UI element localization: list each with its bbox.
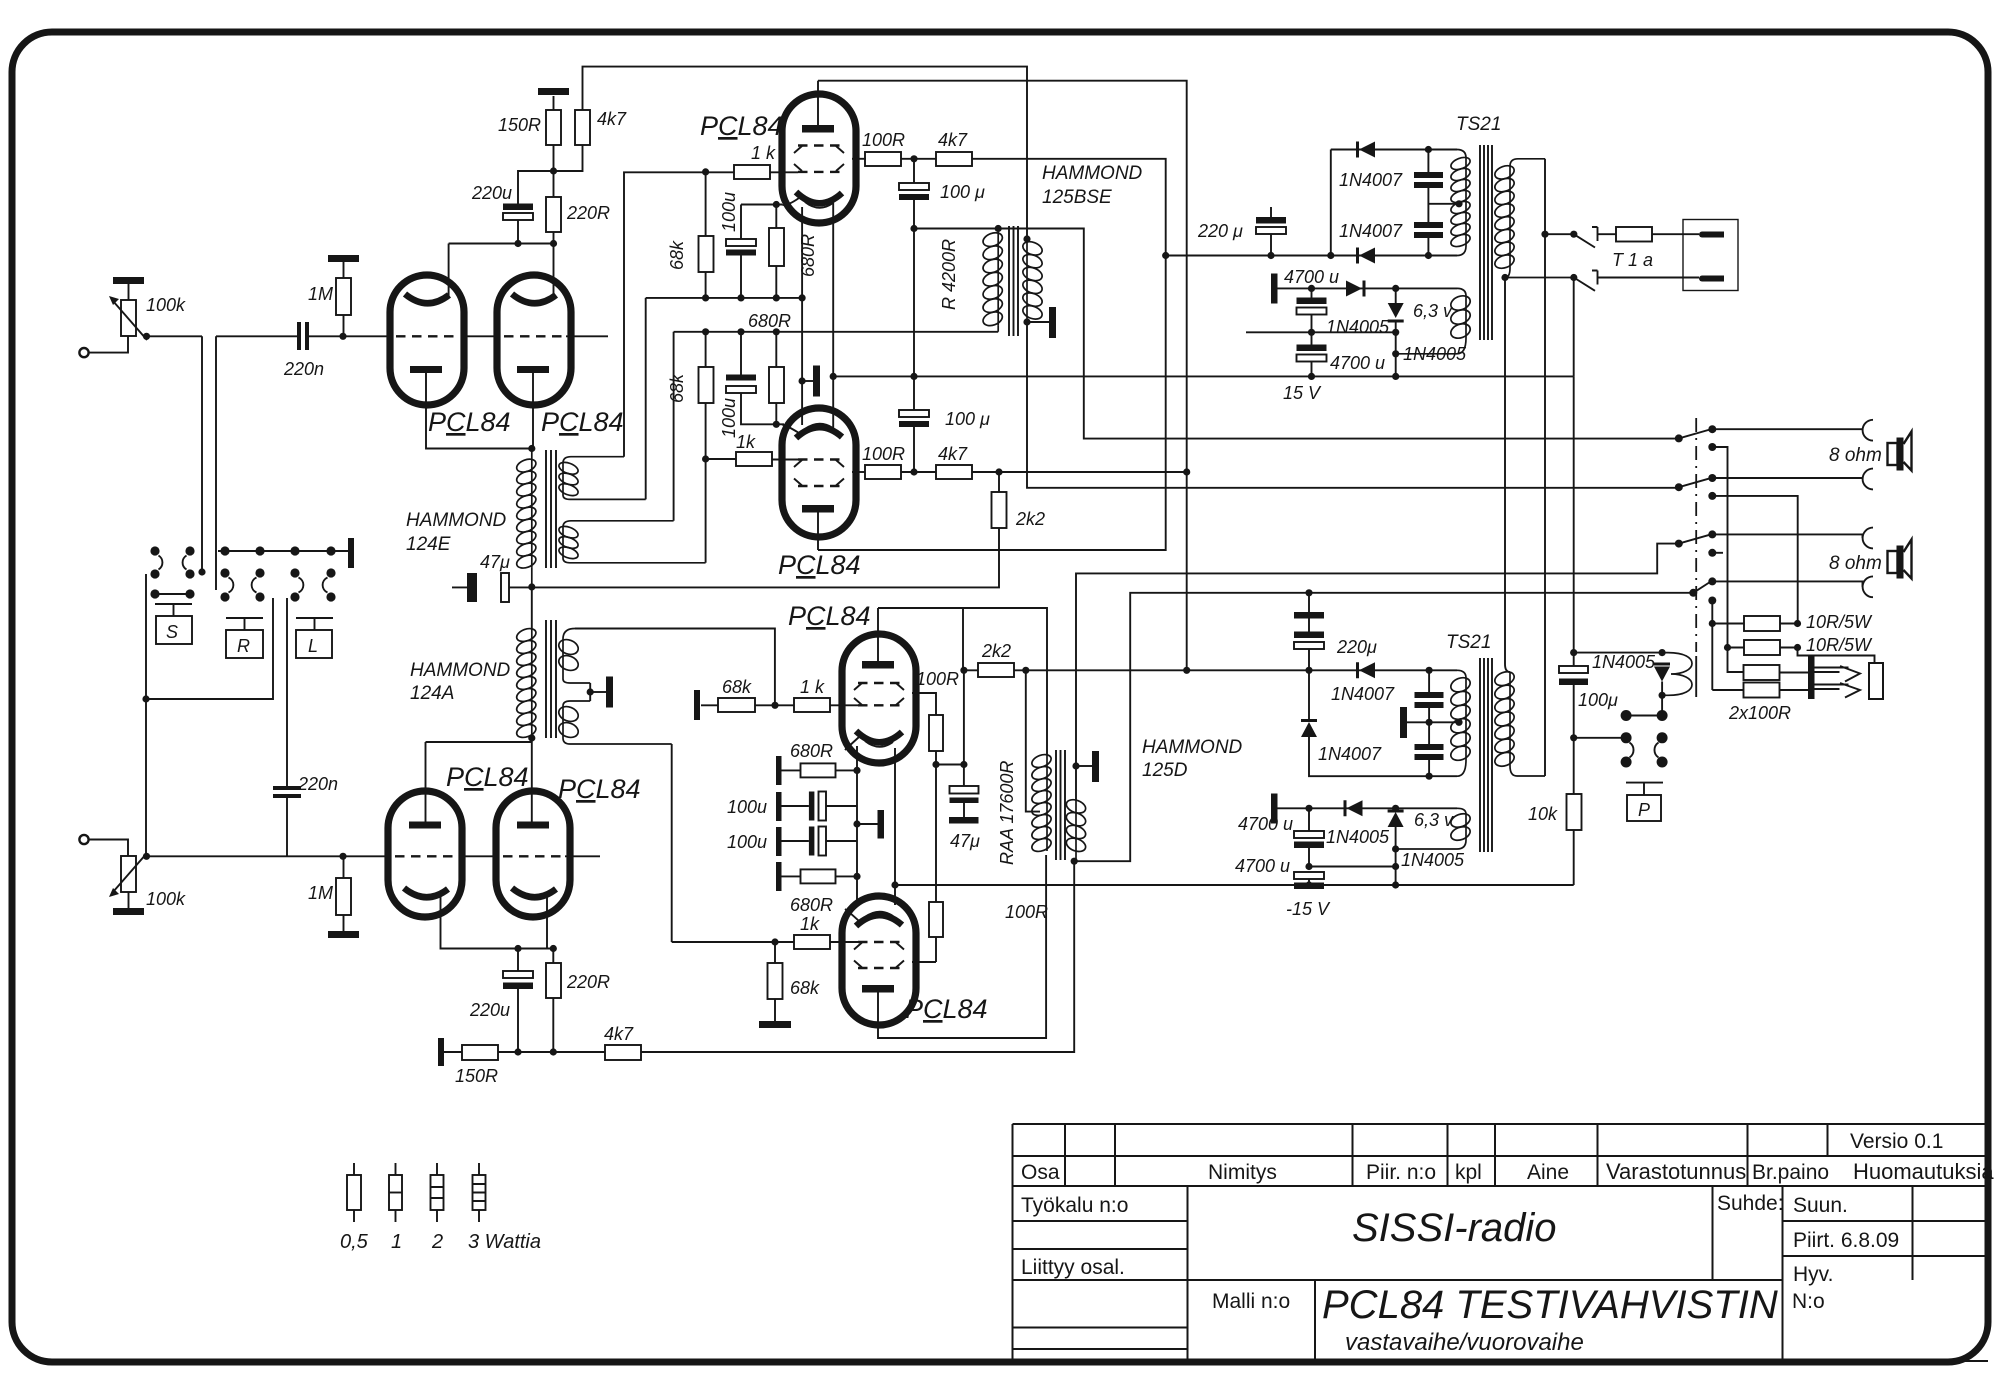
hammond 124E secondary winding A	[557, 457, 645, 500]
svg-text:Varastotunnus: Varastotunnus	[1606, 1159, 1746, 1184]
V1 anode arc	[405, 294, 449, 303]
capacitor C11 220u	[1256, 217, 1286, 224]
wire C19 leads	[1308, 808, 1310, 866]
wire 125D sec top lead up	[1076, 544, 1679, 800]
V4b screen lead right	[912, 937, 936, 962]
svg-text:100u: 100u	[719, 192, 739, 232]
node C20 bottom	[1305, 881, 1312, 888]
V4b cathode inner arc	[865, 912, 893, 917]
capacitor C9 100u lower	[899, 410, 929, 417]
node bus1 68k	[702, 294, 709, 301]
node relay coil bottom	[1659, 692, 1666, 699]
wire D8 down	[1395, 827, 1397, 885]
node +15 rail right	[1392, 329, 1399, 336]
relay contact right	[1657, 732, 1668, 743]
node 1M R7 top	[339, 853, 346, 860]
PS top rail	[1331, 149, 1457, 151]
capacitor C7 100u lower	[726, 375, 756, 381]
svg-text:1M: 1M	[308, 883, 333, 903]
node 220u C2 bottom	[514, 240, 521, 247]
V2 cathode lead	[532, 373, 534, 449]
svg-text:2x100R: 2x100R	[1728, 703, 1791, 723]
svg-text:4k7: 4k7	[604, 1024, 634, 1044]
wire colA down to lower channel	[145, 574, 147, 856]
resistor R7 1M	[336, 878, 351, 915]
wire C17 leads	[1428, 670, 1430, 744]
svg-text:L: L	[308, 636, 318, 656]
speaker2 icon	[1888, 551, 1898, 573]
svg-text:1M: 1M	[308, 284, 333, 304]
node 124E primary top	[528, 445, 535, 452]
svg-text:4700 u: 4700 u	[1235, 856, 1290, 876]
svg-text:100μ: 100μ	[1578, 690, 1618, 710]
V3 cathode drop wires	[802, 200, 833, 376]
svg-text:HAMMOND: HAMMOND	[1042, 163, 1143, 184]
wire 680R R12 leads	[775, 205, 777, 298]
V2b cathode lead	[546, 896, 548, 949]
relay coil	[1662, 653, 1692, 696]
svg-text:PCL84: PCL84	[778, 550, 861, 580]
potentiometer R1 100k	[121, 300, 136, 336]
wire TS21#2 primary center tap	[1429, 721, 1461, 723]
capacitor C20 4700u	[1294, 872, 1324, 879]
wire 220u lower leads	[518, 949, 553, 1053]
ground on switch feed wire	[1308, 593, 1310, 612]
capacitor C3 220n lower	[273, 786, 301, 798]
wire 6.3v rail upper	[1278, 287, 1458, 289]
wire 125BSE right bottom to ground	[1023, 318, 1030, 325]
node 1M R2 top	[339, 333, 346, 340]
contact column 3	[290, 568, 299, 577]
wire 100u to relay contacts	[1570, 734, 1577, 741]
node 150R lower junction	[514, 1048, 521, 1055]
svg-text:2k2: 2k2	[1015, 509, 1045, 529]
wire 100u C6 leads	[740, 205, 742, 298]
wire 68k R11 leads	[705, 172, 707, 298]
wire 2k2 to B+ node	[964, 669, 1187, 671]
ground 124A center tap	[590, 691, 606, 693]
wire 4k7 lower to feedback	[553, 861, 1074, 1052]
legend resistor 0,5W	[353, 1163, 355, 1222]
wire 220R lower leads	[552, 949, 554, 1053]
box L with terminal	[296, 618, 333, 630]
V2 anode lead	[553, 244, 555, 297]
wire V4 cathode exit stub	[776, 423, 784, 425]
svg-text:1N4007: 1N4007	[1339, 221, 1403, 241]
svg-text:Malli n:o: Malli n:o	[1212, 1290, 1290, 1313]
V4 cathode arc	[796, 427, 842, 438]
TS21 lower core	[1480, 658, 1492, 852]
wire 150R leads	[553, 96, 555, 171]
svg-text:Huomautuksia: Huomautuksia	[1853, 1159, 1994, 1184]
box S with terminal	[155, 604, 192, 616]
wire 1k V4 to grid	[772, 459, 798, 461]
wire 124A secA top to V3b grid	[575, 629, 775, 709]
node chain minus rail	[910, 373, 917, 380]
wire 124E primary bottom down to 124A	[531, 587, 533, 629]
wire 100u C7 leads	[741, 332, 776, 425]
resistor R8 220R lower	[546, 963, 561, 998]
node 68k V4b	[771, 938, 778, 945]
wire 124E secA bottom to bus	[645, 298, 647, 500]
node bus2 68k	[702, 328, 709, 335]
node C18 bottom	[1426, 773, 1433, 780]
V3b cathode drop	[856, 746, 858, 876]
resistor R28 2k2	[978, 663, 1014, 677]
node 125D center tap riser	[1022, 667, 1029, 674]
node D4 minus rail	[1392, 373, 1399, 380]
svg-text:1: 1	[391, 1231, 402, 1253]
svg-text:100R: 100R	[862, 130, 905, 150]
node lower B+	[1183, 667, 1190, 674]
node C17 C18 chain top	[1426, 667, 1433, 674]
svg-text:1N4005: 1N4005	[1403, 344, 1467, 364]
resistor R22 2k2	[992, 492, 1007, 528]
wire D9 down	[1661, 682, 1663, 696]
lower B+ rail	[1187, 669, 1457, 671]
V4 grid row 1	[798, 458, 840, 460]
wire minus rail corner to relay line	[1573, 278, 1575, 377]
hammond 124E core	[546, 450, 556, 568]
node 100u C8 top	[910, 155, 917, 162]
svg-text:220n: 220n	[297, 774, 338, 794]
svg-text:100u: 100u	[727, 832, 767, 852]
svg-text:N:o: N:o	[1792, 1290, 1825, 1313]
svg-text:220 μ: 220 μ	[1197, 221, 1243, 241]
node D4 top	[1392, 285, 1399, 292]
svg-text:P: P	[1638, 800, 1650, 820]
wire 1M lower leads	[343, 856, 345, 931]
headphone jack	[1808, 656, 1883, 699]
node switch pole1	[1541, 231, 1548, 238]
lower cathode network row2 100u	[776, 792, 782, 821]
node 100R V3b bottom	[932, 761, 939, 768]
box P with terminal	[1626, 783, 1663, 795]
resistor R11 68k	[699, 236, 714, 272]
contact column 4	[326, 568, 335, 577]
node 124A center tap	[587, 688, 594, 695]
svg-text:R: R	[237, 636, 250, 656]
V4 cathode top leads	[802, 298, 833, 430]
node bus2 680R	[773, 328, 780, 335]
node R31 left	[1724, 644, 1731, 651]
wire 100R jack leads	[1780, 673, 1809, 691]
svg-text:100R: 100R	[862, 444, 905, 464]
svg-text:220n: 220n	[283, 359, 324, 379]
mains switch pole1	[1545, 227, 1598, 248]
triode V1b envelope	[388, 791, 462, 917]
capacitor C18	[1415, 744, 1444, 760]
V1 cathode lead	[426, 373, 532, 449]
node bus1 cathode	[799, 294, 806, 301]
wire V3 anode top rail	[818, 81, 1187, 671]
wire 220u C11 leads	[1270, 207, 1272, 256]
wire 68k R13 leads	[705, 332, 707, 459]
svg-text:680R: 680R	[798, 234, 818, 277]
wire C12 leads	[1427, 150, 1429, 223]
svg-text:4k7: 4k7	[597, 109, 627, 129]
node 1k V3b	[771, 702, 778, 709]
node 125BSE left coil top	[995, 225, 1002, 232]
wire R31 leads	[1728, 647, 1798, 649]
wire 220R leads	[553, 171, 555, 244]
svg-text:8 ohm: 8 ohm	[1829, 445, 1882, 466]
svg-text:220R: 220R	[566, 972, 610, 992]
node D8 top	[1392, 805, 1399, 812]
wire pot R1 to switch columns	[147, 336, 203, 572]
switch bus wire	[218, 550, 349, 552]
resistor R13 68k lower	[699, 367, 714, 403]
speaker switch pair3	[1675, 540, 1683, 548]
resistor R12 680R	[769, 228, 784, 266]
wire 124E secA top to V3 grid row	[624, 172, 734, 456]
V3b V4b second cathode lead	[894, 748, 896, 905]
node pot R1 out	[143, 333, 150, 340]
resistor R32 100R jack	[1744, 665, 1780, 680]
TS21 upper 6.3v winding	[1396, 288, 1472, 353]
svg-text:1k: 1k	[736, 432, 756, 452]
wire 68k V4b leads	[774, 942, 776, 1021]
node 220R R4 bottom	[550, 240, 557, 247]
node C15 bottom	[1308, 373, 1315, 380]
resistor R31 10R5W	[1744, 640, 1780, 655]
ground above 150R	[538, 88, 569, 95]
relay contact left	[1621, 732, 1632, 743]
pot R1 wiper arrow	[113, 301, 147, 340]
svg-text:220μ: 220μ	[1336, 637, 1377, 657]
V1b cathode arc	[404, 888, 448, 897]
svg-text:1 k: 1 k	[751, 143, 776, 163]
wire colA colB link	[155, 593, 190, 595]
triode V1 envelope	[390, 275, 464, 405]
switch bank contacts	[150, 538, 354, 602]
capacitor C1 220n	[297, 322, 309, 350]
TS21 lower 6.3v winding	[1396, 808, 1472, 849]
svg-text:150R: 150R	[455, 1066, 498, 1086]
V4b anode bar	[862, 985, 894, 993]
V4 cathode inner arc	[805, 424, 833, 429]
wire V3b anode to 125D primary top	[878, 608, 1047, 755]
V3b cathode inner arc	[865, 741, 893, 747]
mid rail D2	[1271, 255, 1457, 257]
wire mains vertical A	[1544, 159, 1546, 776]
terminal bar V3b grid	[694, 690, 700, 720]
svg-text:TS21: TS21	[1456, 114, 1501, 135]
resistor R23 68k	[718, 698, 755, 712]
resistor R10 4k7 lower	[605, 1045, 641, 1060]
wire C14 leads	[1311, 288, 1313, 332]
V3 grid row 2	[798, 171, 840, 173]
V4b anode lead	[878, 855, 1046, 1038]
wire C18 leads	[1428, 760, 1430, 776]
svg-text:PCL84: PCL84	[541, 407, 624, 437]
svg-text:1N4007: 1N4007	[1318, 744, 1382, 764]
node 6.3 winding return	[1392, 350, 1399, 357]
wire 100u top to cathode node	[741, 204, 782, 206]
hammond 124A primary coil	[515, 626, 538, 740]
node 68k R11 top	[702, 168, 709, 175]
V3 anode bar	[802, 125, 834, 133]
hammond 125D core	[1056, 750, 1065, 860]
speaker switch pair1	[1675, 434, 1683, 442]
wire 4k7 top to B+ top rail	[583, 67, 1028, 239]
plug prong 1	[1702, 232, 1724, 238]
node C12 top	[1425, 146, 1432, 153]
svg-text:100u: 100u	[727, 797, 767, 817]
svg-text:125D: 125D	[1142, 760, 1188, 781]
svg-text:1N4005: 1N4005	[1401, 850, 1465, 870]
wire 125D sec bottom to switch	[1074, 593, 1693, 861]
svg-text:68k: 68k	[667, 373, 687, 403]
pot R6 wiper arrow	[113, 853, 147, 892]
node 124E primary bottom / 47u	[528, 583, 535, 590]
diode D2 1N4007	[1356, 248, 1375, 264]
wire 220u leads	[518, 171, 554, 244]
svg-text:220R: 220R	[566, 203, 610, 223]
svg-text:PCL84: PCL84	[905, 994, 988, 1024]
wire 2k2 leads	[998, 472, 1000, 492]
V1b anode lead	[425, 742, 427, 822]
wire 1k to V3 grid	[770, 171, 798, 173]
resistor R20 100R V4	[865, 465, 901, 479]
V4b cathode arc	[856, 915, 902, 926]
node bus1 100u	[737, 294, 744, 301]
svg-text:PCL84: PCL84	[428, 407, 511, 437]
wire 100u C9 leads	[913, 427, 915, 472]
node 2k2 left	[960, 667, 967, 674]
svg-text:68k: 68k	[790, 978, 820, 998]
node right column cross	[1183, 468, 1190, 475]
wire 124E secB bottom to V4 1k	[706, 459, 736, 563]
wire 150R lower leads	[444, 1051, 518, 1053]
speaker1 icon	[1888, 443, 1898, 465]
wire switch link lower	[146, 598, 273, 699]
svg-text:T 1 a: T 1 a	[1612, 250, 1653, 270]
wire 220n to V1 grid	[309, 335, 390, 337]
speaker1 terminal arcs	[1863, 420, 1873, 441]
V3 cathode arc	[796, 192, 842, 203]
node PS left link	[1327, 252, 1334, 259]
wire V1b V2b anode rail	[426, 741, 532, 743]
switch mechanical dash line	[1695, 418, 1697, 652]
svg-text:68k: 68k	[667, 240, 687, 270]
capacitor C16 220u	[1294, 632, 1324, 639]
node 124A primary bottom	[528, 734, 535, 741]
speaker2 terminal arcs	[1863, 528, 1873, 549]
V4b grid row 1	[858, 941, 900, 943]
wire pair2 to speaker1 minus	[1712, 478, 1862, 479]
wire 124A secB bottom up to V4b grid row	[672, 744, 794, 942]
wire switch col3 to lower 220n	[286, 598, 288, 786]
wire 4k7 out to right column	[818, 159, 1166, 550]
svg-text:100R: 100R	[916, 669, 959, 689]
PS left link	[1330, 150, 1332, 256]
svg-text:Työkalu n:o: Työkalu n:o	[1021, 1194, 1128, 1217]
node 100R 4k7 junction lower	[910, 468, 917, 475]
V3 screen lead right	[852, 158, 866, 160]
svg-text:100R: 100R	[1005, 902, 1048, 922]
svg-text:8 ohm: 8 ohm	[1829, 553, 1882, 574]
wire pot R6 to 220n C3	[147, 855, 388, 857]
ground above pot R1	[113, 277, 144, 284]
resistor R18 4k7	[936, 152, 972, 166]
resistor R25 1k V4b	[794, 935, 830, 949]
resistor R5 4k7	[575, 110, 590, 145]
title block table frame	[1013, 1124, 1989, 1361]
wire 124E secB top to bus2	[673, 332, 675, 521]
triode V2 envelope	[497, 275, 571, 405]
svg-text:6,3 v: 6,3 v	[1413, 301, 1453, 321]
ground below 68k V4b	[759, 1021, 791, 1028]
TS21 lower primary winding	[1449, 670, 1472, 776]
resistor R27 100R V3b	[929, 715, 943, 751]
wire C15 leads	[1311, 332, 1313, 376]
svg-text:100k: 100k	[146, 889, 186, 909]
capacitor C15 4700u	[1297, 345, 1327, 352]
TS21 upper secondary winding	[1493, 159, 1574, 278]
svg-text:Br.paino: Br.paino	[1752, 1161, 1829, 1184]
V3b grid row 1	[858, 682, 900, 684]
svg-text:Aine: Aine	[1527, 1161, 1569, 1184]
resistor R26 68k V4b	[768, 963, 783, 999]
node relay line 100u	[1570, 649, 1577, 656]
node 6.3 winding return lower	[1392, 845, 1399, 852]
node 220u C11	[1267, 252, 1274, 259]
svg-text:4k7: 4k7	[938, 444, 968, 464]
node C16 bottom	[1305, 667, 1312, 674]
svg-text:1N4005: 1N4005	[1326, 827, 1390, 847]
capacitor C13	[1414, 222, 1443, 238]
svg-text:Hyv.: Hyv.	[1793, 1263, 1833, 1286]
V3b grid row 2	[858, 704, 900, 706]
capacitor C14 4700u	[1297, 298, 1327, 305]
svg-text:68k: 68k	[722, 677, 752, 697]
resistor R30 10R5W	[1744, 616, 1780, 631]
node 1N4005 top	[1659, 649, 1666, 656]
svg-text:PCL84: PCL84	[788, 601, 871, 631]
svg-text:6,3 v: 6,3 v	[1414, 810, 1454, 830]
node 220u C4 top	[514, 945, 521, 952]
wire 100R 4k7 row V4	[901, 471, 1187, 473]
diode D6 1N4007 up	[1308, 670, 1310, 719]
contact column 1	[220, 568, 229, 577]
svg-text:RAA 17600R: RAA 17600R	[997, 761, 1017, 865]
pentode V3 envelope	[782, 94, 856, 223]
potentiometer R6 100k	[121, 856, 136, 892]
legend resistor 3W	[478, 1163, 480, 1222]
resistor R3 150R	[546, 110, 561, 145]
ground 6.3v rail lower	[1271, 794, 1278, 824]
capacitor C8 100u	[899, 183, 929, 190]
wire 47u node to 2k2 bottom	[532, 528, 999, 587]
svg-text:10k: 10k	[1528, 804, 1558, 824]
wire D6 to lower return rail	[1309, 737, 1457, 776]
wire 125D center tap	[1026, 670, 1040, 811]
resistor R16 1k	[734, 165, 770, 179]
capacitor C5 47u	[467, 573, 477, 602]
wire pair1 to speaker1 plus	[1712, 429, 1862, 430]
capacitor C17	[1415, 692, 1444, 708]
bus terminal bar	[348, 538, 354, 568]
node 150R junction	[550, 167, 557, 174]
contact column 2	[255, 568, 264, 577]
capacitor C10 47u lower	[950, 786, 979, 794]
capacitor C12	[1414, 172, 1443, 188]
diode D7 1N4005	[1344, 800, 1363, 816]
wire 100u to 125BSE left top	[914, 229, 1679, 439]
wire 100u chain down	[913, 229, 915, 411]
wire pair4 to speaker2 minus	[1712, 581, 1862, 586]
